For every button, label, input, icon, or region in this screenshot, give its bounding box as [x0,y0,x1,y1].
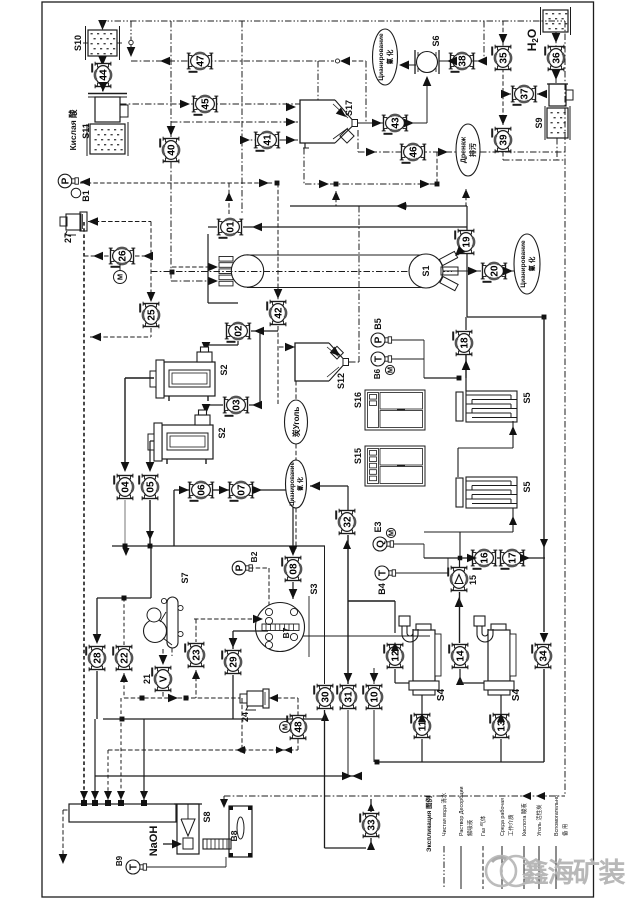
svg-text:氰 化: 氰 化 [527,256,536,271]
svg-text:12: 12 [391,650,402,662]
svg-text:17: 17 [508,552,519,564]
svg-text:40: 40 [167,144,178,156]
svg-text:S12: S12 [336,373,346,389]
wire S9 down [556,138,558,160]
arrow 02 [254,327,264,336]
svg-text:46: 46 [409,146,420,158]
wire 02 out [237,341,239,345]
svg-text:S4: S4 [511,688,522,701]
wire 20 [443,270,481,272]
wire y719 [103,718,324,720]
arrow 08 out [289,589,298,599]
valve 06 [188,481,215,501]
arrow 14 [456,676,464,685]
valve 01 [217,218,244,238]
svg-text:炭Уголь: 炭Уголь [291,407,301,439]
svg-text:S5: S5 [522,392,532,403]
arrow into S2a [202,342,211,352]
svg-text:10: 10 [370,691,381,703]
wire NaOH [163,843,172,845]
vessel B7 [256,603,305,652]
valve 35 [492,45,512,72]
instrument E3 Q [373,537,394,551]
filter S9 upper [547,84,573,106]
wire top trunk y21 [99,20,565,22]
wire S7 out [171,648,173,656]
junction y546 [148,544,153,549]
ellipse coal [285,400,308,444]
wire 03 out [213,404,223,406]
arrow 36 [552,70,561,80]
arrow 13 [497,713,505,722]
svg-text:30: 30 [321,691,332,703]
filter S9 legs [545,106,570,140]
junction 459/378 [457,376,462,381]
hopper S17 [300,100,358,143]
arrow into 27 [88,217,98,226]
wire 02-03 [259,331,261,405]
wire coal [295,381,297,400]
arrow waste [59,854,68,864]
wire 21 [162,649,164,656]
svg-text:S10: S10 [73,35,83,51]
svg-text:08: 08 [289,563,300,575]
valve 42 [267,300,287,327]
svg-text:S8: S8 [202,811,212,822]
valve 12 [384,643,404,670]
svg-text:NaOH: NaOH [148,826,160,857]
svg-text:V: V [159,675,170,682]
arrow into 29 [229,638,238,648]
arrow into 31 [344,673,353,683]
svg-text:T: T [373,356,384,362]
valve 23 [185,642,205,669]
svg-text:S4: S4 [436,688,447,701]
filter S11 lower [90,124,125,154]
svg-text:16: 16 [480,552,491,564]
wire 04 down [124,500,126,546]
svg-text:S9: S9 [534,117,544,128]
svg-text:S7: S7 [180,572,190,583]
wire 37 [503,93,511,95]
injector y61 [335,59,339,63]
svg-text:04: 04 [121,481,132,493]
wire 12 [394,601,396,633]
svg-text:S11: S11 [81,123,91,139]
panel S15 [365,446,425,486]
wire 22 [123,598,125,645]
valve 46 [400,143,427,163]
svg-text:33: 33 [367,819,378,831]
valve 40 [160,137,180,164]
arrow into cyan mid [310,482,320,491]
svg-text:31: 31 [344,691,355,703]
arrow into 28 [93,634,102,644]
screen S17 [340,129,354,143]
arrow 22 up [120,673,128,682]
arrow into 04 [121,462,130,472]
wire 08-B7 [292,582,294,599]
svg-text:B4: B4 [377,583,387,595]
svg-text:37: 37 [520,88,531,100]
arrow into 08 [289,546,298,556]
wire x95 [94,719,96,776]
arrow up x336 [332,191,340,200]
valve 26 [109,247,136,267]
svg-text:48: 48 [294,721,305,733]
arrow 26 l [93,252,103,261]
wire 11 [421,695,423,714]
tank S10 flanges [83,26,122,60]
valve 17 [499,549,526,569]
svg-text:S5: S5 [522,481,532,492]
wire S6-38 [439,60,452,62]
svg-text:Q: Q [375,540,386,548]
motor e3 [386,528,395,537]
valve 08 [282,556,302,583]
arrow into 33 [367,841,375,850]
valve 28 [86,645,106,672]
svg-text:B1: B1 [81,190,91,202]
valve 18 [453,330,473,357]
wire cyan-08 [295,508,297,549]
svg-text:Уголь 活性炭: Уголь 活性炭 [535,804,543,836]
instrument B4 T [375,566,396,580]
wire B5 [392,339,424,341]
wire 18 up [465,317,467,330]
wire y317 [467,316,544,318]
arrow into B7 left [253,615,263,624]
valve 45 [192,95,219,115]
arrow into S2b [202,404,211,414]
arrow into S10 [98,20,107,30]
svg-text:22: 22 [120,652,131,664]
wire 29 [232,631,234,649]
manifold taps [81,800,147,806]
arrow 20 [468,267,478,276]
arrow 43 [372,119,382,128]
svg-text:20: 20 [490,265,501,277]
valve 13 [490,713,510,740]
valve 47 [187,52,214,72]
svg-text:B2: B2 [249,551,259,562]
wire y183 trunk [80,182,274,184]
svg-text:28: 28 [93,652,104,664]
wire H2O down [555,32,557,83]
arrow S10 out [98,56,107,66]
svg-text:S3: S3 [309,583,319,594]
svg-text:18: 18 [460,337,471,349]
tank H2O hatch [546,13,568,29]
arrow into S11 [99,82,108,92]
pump 27 [60,212,87,235]
wire x336 stub [335,191,337,206]
svg-text:26: 26 [118,250,129,262]
screen S3 line [308,596,310,657]
valve 44 [92,62,112,89]
svg-text:05: 05 [146,481,157,493]
wire S10 top [102,21,104,29]
arrow y152 [366,148,376,157]
wire x171 to axis [170,183,172,272]
svg-text:Газ 气体: Газ 气体 [479,815,487,836]
svg-text:Чистая вода 清水: Чистая вода 清水 [440,792,448,836]
arrow feed [208,263,218,272]
valve 39 [492,127,512,154]
svg-text:P: P [60,177,71,184]
svg-text:35: 35 [499,52,510,64]
arrow into B8 [220,799,228,808]
wire x565 trunk [564,21,566,796]
arrow y776 [342,772,352,781]
valve 41 [254,131,281,151]
junction y750 [241,748,246,753]
wire y762 [375,761,544,763]
drum axis [151,271,452,273]
junction y762 [375,760,380,765]
junction x171/272 [170,270,175,275]
svg-text:P: P [234,564,245,571]
wire 28 [96,598,98,636]
svg-text:44: 44 [99,69,110,81]
thickener S2 a [150,347,215,401]
valve 48 [287,714,307,741]
svg-text:工作介质: 工作介质 [507,814,515,836]
drum body [247,255,426,288]
svg-text:S2: S2 [217,427,227,438]
wire 24-48 [277,697,298,699]
arrow coil b [509,516,517,525]
arrow into 18 [462,360,471,370]
svg-text:07: 07 [237,484,248,496]
svg-text:Кислая 酸: Кислая 酸 [68,109,78,151]
wire 38-x484 [471,60,484,62]
arrow into 05 [146,462,155,472]
arrow y183 a [259,179,269,188]
valve 32 [336,509,356,536]
ellipse cyanide top right [514,234,540,294]
svg-text:解吸液: 解吸液 [466,819,474,836]
pump S6 [415,50,439,74]
feeder B8 [203,806,252,857]
column S4 left [399,616,441,695]
wire S2a out [125,377,154,379]
arrow 30 up [321,712,329,721]
wire drum feed top [207,234,209,303]
wire y105 [120,103,300,105]
junction 460/558 [458,556,463,561]
coil S5 a pipe [512,421,514,448]
arrow 23 up [192,670,200,679]
wire y750 [108,749,298,751]
arrow y140 [240,136,250,145]
wire funnel-43 [358,122,385,124]
wire y490 [174,489,293,491]
wire funnel down [357,130,359,152]
wire x544 trunk [543,317,545,632]
instrument B6 T [371,352,392,366]
arrow into S12 [285,343,295,352]
wire y184 seg2 [305,183,437,185]
wire 10 [373,668,375,684]
arrow into 34 [540,633,549,643]
wire 23 [195,619,197,642]
arrow into S6 [423,76,432,86]
wire 48 down [297,739,299,750]
valve 30 [314,684,334,711]
hopper S17 legs [303,143,309,148]
wire B9 [147,866,226,868]
arrow on y61 [160,57,170,66]
svg-text:S1: S1 [421,265,431,276]
svg-text:鑫海矿装: 鑫海矿装 [522,857,625,888]
watermark logo [486,856,531,886]
arrow 42 [274,289,283,299]
filter S9 pack [551,112,566,133]
wire cyan mid [310,485,348,487]
wire 25 out [150,328,152,337]
svg-text:15: 15 [468,575,478,585]
svg-text:B5: B5 [373,318,383,330]
junction y719 [120,717,125,722]
wire junction-15 [459,558,461,567]
svg-text:Среда рабочая: Среда рабочая [500,798,506,836]
tank H2O [541,7,571,35]
valve 11 [411,713,431,740]
wire S2b out [150,440,154,442]
wire 34 down [543,669,545,762]
wire 30 [324,546,326,684]
svg-text:Цианирование: Цианирование [290,462,296,506]
wire x242 top [241,21,243,140]
wire 32 [347,486,349,510]
svg-text:S16: S16 [353,392,363,408]
thickener S2 b [148,410,213,464]
blower S7 [144,597,184,648]
wire x171 low [170,162,172,183]
wire x171 trunk [170,21,172,137]
valve 03 [223,396,250,416]
arrow 35 [499,34,508,44]
wire e3 line [394,543,424,545]
wire 01 up [228,183,230,214]
svg-text:氰 化: 氰 化 [296,477,304,491]
wire 33 [325,847,367,849]
svg-text:06: 06 [197,484,208,496]
svg-text:36: 36 [552,52,563,64]
arrow into 32 [343,540,351,549]
svg-text:47: 47 [196,55,207,67]
junction 532/316 [542,315,547,320]
svg-text:M: M [116,274,125,280]
valve 38 [449,52,476,72]
manifold header [69,804,176,822]
motor b6 [385,365,394,374]
svg-text:M: M [387,530,396,536]
arrows into manifold [80,791,148,800]
wire into S12 [279,346,295,348]
valve 33 [360,812,380,839]
svg-text:34: 34 [539,650,550,662]
wire 26 [84,255,109,257]
motor M 48 [280,722,291,733]
injector check B [127,21,136,57]
wire y776 [95,775,360,777]
wire 31 [347,543,349,684]
arrow 39 [499,115,508,125]
wire 27 feed [88,221,151,223]
wire S10-S11 [102,56,104,93]
svg-text:P: P [373,336,384,343]
arrow B1 [80,178,90,187]
filter S11 pack [95,129,123,150]
svg-text:B7: B7 [281,627,291,638]
arrow valve40 [167,126,176,136]
arrow 16 17 [467,554,477,563]
valve 37 [511,85,538,105]
valve 05 [139,474,159,501]
wire x278 trunk [277,183,279,288]
arrow 25 out [91,333,101,342]
wire 02 feed [251,330,278,332]
arrow inside S12 [330,347,343,360]
arrow up x466 [462,189,470,198]
svg-text:Вспомогательно: Вспомогательно [554,795,560,836]
svg-text:T: T [377,570,388,576]
valve 19 [455,229,475,256]
svg-text:S17: S17 [344,100,354,116]
wire x293 down [292,490,294,549]
valve 34 [532,643,552,670]
wire x437 [436,152,438,183]
mixer S8 [174,804,202,854]
drum right head S1 [409,254,443,288]
wire 15 down [459,592,461,643]
svg-text:42: 42 [274,307,285,319]
wire y546 [112,545,325,547]
valve 14 [449,643,469,670]
valve 25 [140,302,160,329]
wire 39 down [502,152,504,160]
arrow into 15 [455,597,464,607]
ellipse cyanide mid [286,460,307,508]
svg-text:43: 43 [391,117,402,129]
coil S5 b [456,477,517,508]
valve 16 [471,549,498,569]
svg-text:29: 29 [229,656,240,668]
valve 02 [225,322,252,342]
drum trunnion [439,251,457,265]
junction x125 [123,544,128,549]
filter S9 lower [547,108,568,138]
svg-text:01: 01 [226,221,237,233]
arrow y105 [180,100,190,109]
wire y61 trunk [131,60,334,62]
ellipse drain [456,124,480,176]
arrow y750 [236,746,245,754]
arrow inside S17 [336,108,349,121]
wire B7 left feed [194,618,255,620]
svg-text:氰 化: 氰 化 [385,49,394,64]
svg-text:03: 03 [232,399,243,411]
arrow y206 [396,202,406,211]
B7 internals [262,608,299,648]
coil S5 a [456,391,517,422]
valve 22 [113,645,133,672]
valve 15 control [448,566,468,593]
svg-text:38: 38 [458,55,469,67]
arrow into 10 [370,673,379,683]
